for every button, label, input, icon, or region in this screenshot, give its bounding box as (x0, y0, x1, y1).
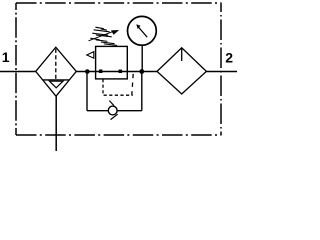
node junction left of regulator (85, 69, 90, 74)
lubricator L1 body (157, 48, 206, 94)
drain wire (55, 96, 57, 151)
regulator seat square right (119, 70, 122, 73)
wire lubricator to port2 (206, 71, 237, 73)
regulator vent triangle (87, 52, 94, 59)
regulator spring (90, 27, 117, 45)
pressure gauge needle (138, 27, 147, 37)
lubricator drip tick (181, 49, 183, 62)
pressure gauge G1 stem (141, 45, 143, 72)
svg-text:2: 2 (225, 50, 233, 66)
regulator seat square left (99, 70, 103, 74)
pressure gauge G1 dial (127, 16, 156, 45)
filter F1 body (36, 47, 77, 96)
enclosure dash-dot frame (16, 3, 222, 135)
wire filter to lubricator through regulator (76, 71, 157, 73)
water separator baffle line (43, 79, 70, 81)
relief loop bottom wire (87, 110, 142, 112)
regulator adjustment arrow (89, 32, 113, 41)
pilot dashed line (103, 79, 133, 95)
svg-text:1: 1 (2, 49, 10, 65)
filter element dashed centerline (55, 49, 57, 80)
node junction right of regulator (139, 69, 144, 74)
regulator R1 body (96, 46, 128, 79)
water separator triangle (50, 81, 64, 88)
drain valve V1 (108, 106, 117, 115)
relief loop left wire (86, 72, 88, 111)
pilot dashed riser (132, 74, 133, 95)
wire port1 to filter (0, 71, 36, 73)
relief loop right wire (141, 72, 143, 111)
